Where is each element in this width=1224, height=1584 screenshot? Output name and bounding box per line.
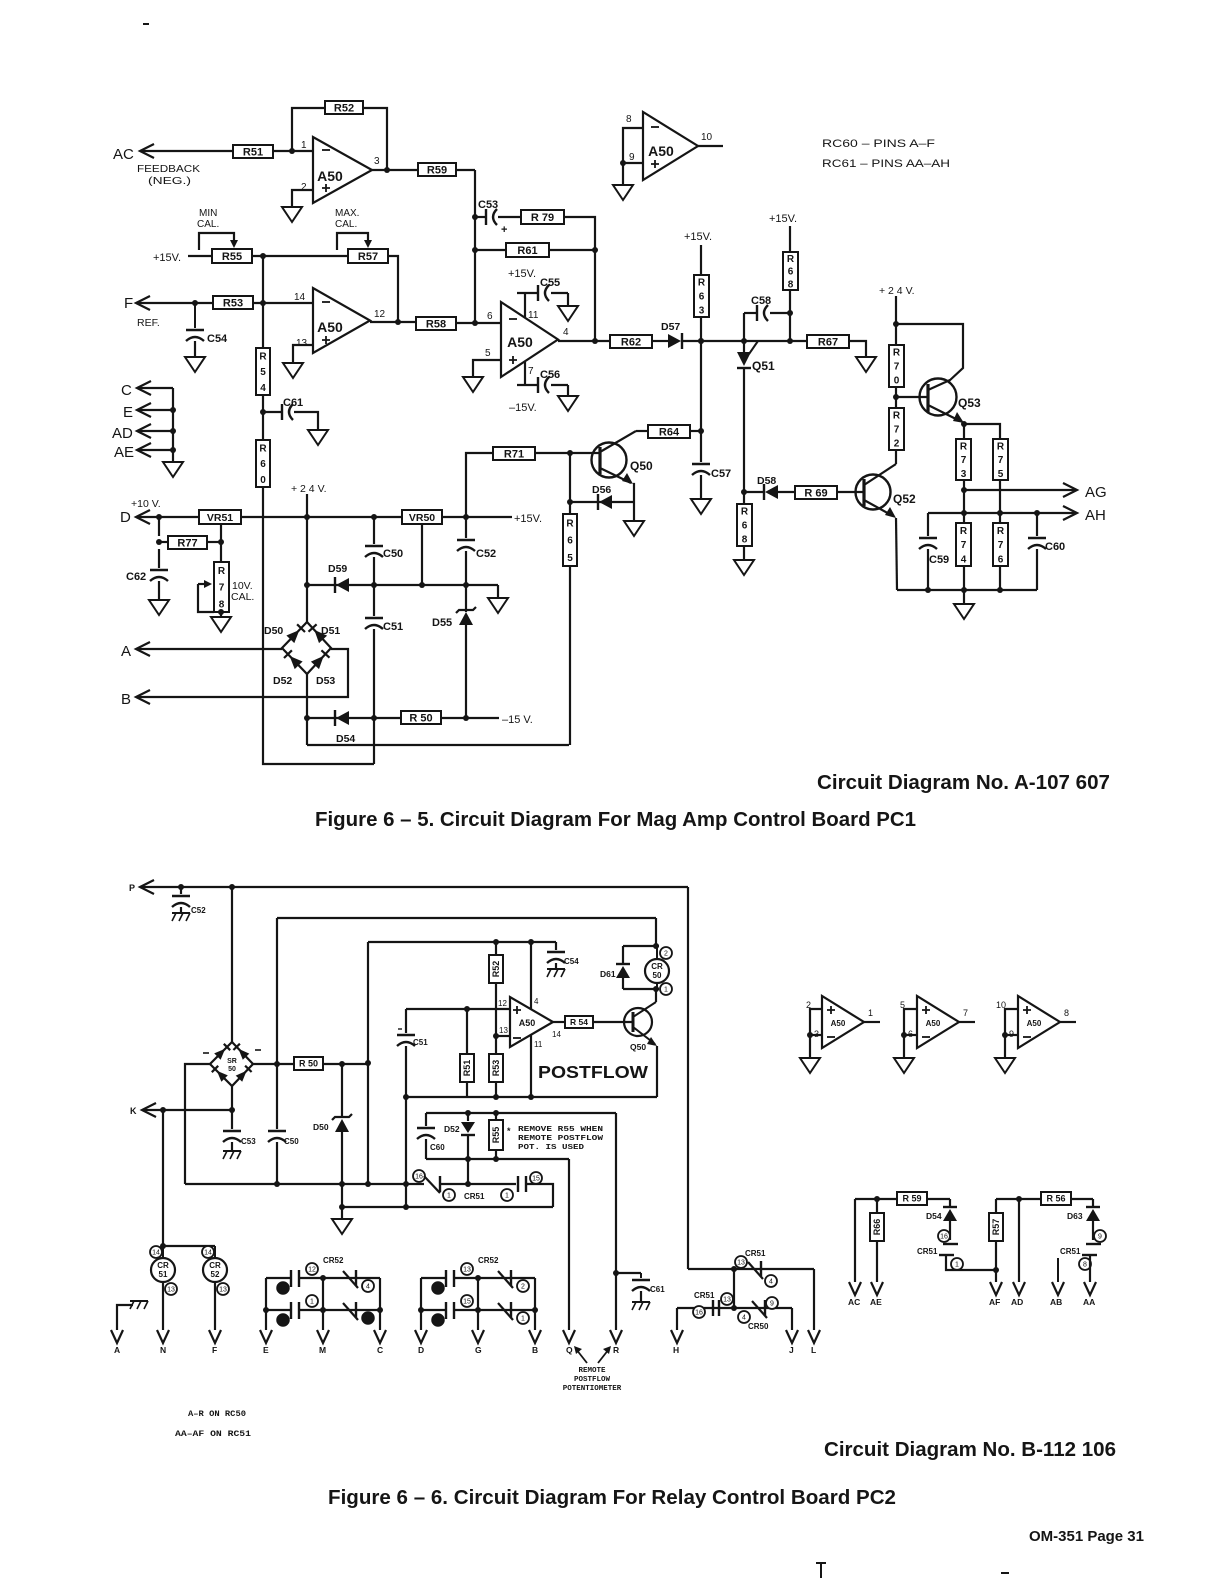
junction R61 left [472, 247, 478, 253]
wire CR50 top line [623, 945, 659, 947]
wire D54 segment [307, 717, 401, 719]
junction R64/R63 column [698, 428, 704, 434]
node G terminal arrow [472, 1330, 484, 1355]
diode D52 fig2 [444, 1113, 475, 1135]
svg-text:MAX.: MAX. [335, 208, 359, 219]
svg-text:13: 13 [167, 1287, 175, 1294]
resistor R53 fig2 [489, 1036, 503, 1082]
pin 9 label [1009, 1029, 1014, 1039]
svg-text:6: 6 [487, 311, 493, 322]
wire +15V to R68 [789, 226, 791, 252]
wire H drop [676, 1308, 678, 1330]
diode D63 [1067, 1207, 1100, 1221]
pin 7 label [528, 366, 534, 377]
node D terminal arrow fig2 [415, 1330, 427, 1355]
op-amp U3 A50 [643, 112, 698, 180]
wire R67 to ground [849, 341, 866, 357]
wire DGB row1 mid [454, 1277, 535, 1279]
svg-text:+15V.: +15V. [153, 252, 181, 264]
svg-text:+15V.: +15V. [514, 513, 542, 525]
terminal 13b HJL [721, 1293, 733, 1305]
wire C58 to R68 column [770, 312, 790, 314]
svg-text:C59: C59 [929, 554, 949, 566]
terminal 1 DGB [517, 1312, 529, 1324]
svg-text:3: 3 [374, 156, 380, 167]
svg-text:7: 7 [961, 455, 967, 466]
wire bus1 mid [440, 1183, 516, 1185]
svg-text:R 50: R 50 [409, 712, 432, 724]
junction R71/D56 riser [567, 450, 573, 456]
svg-text:D51: D51 [321, 625, 340, 637]
label Q50 [630, 459, 653, 473]
wire pin12 line [406, 1009, 510, 1033]
svg-text:7: 7 [281, 1318, 285, 1325]
wire D drop [418, 1278, 424, 1330]
svg-text:G: G [475, 1345, 482, 1355]
junction R63 column on rail [698, 338, 704, 344]
wire EMC row1 [266, 1277, 291, 1279]
junction Q51/D58/R68 [741, 489, 747, 495]
node AD terminal arrow fig2 [1011, 1282, 1025, 1307]
svg-text:B: B [121, 691, 131, 708]
wire base to Q53 [896, 396, 928, 398]
svg-text:C61: C61 [650, 1285, 665, 1294]
wire C50 to D59 rail [373, 557, 375, 585]
relay coil CR52 [203, 1246, 227, 1282]
wire pin4 [530, 942, 532, 1009]
svg-text:9: 9 [1098, 1234, 1102, 1241]
wire C51 to postflow bus [405, 1046, 407, 1097]
wire +15V to R63 [700, 245, 702, 275]
ground at output bus [954, 604, 974, 619]
wire P line [140, 886, 688, 888]
label MIN CAL. [197, 208, 219, 230]
svg-text:1: 1 [310, 1299, 314, 1306]
svg-text:R: R [787, 254, 795, 265]
wire C59 down [927, 549, 929, 590]
wire E drop [263, 1278, 269, 1330]
diode D58 [757, 475, 778, 500]
wire R55 to R57 [252, 255, 348, 257]
resistor R58 [416, 317, 456, 330]
svg-text:D50: D50 [264, 625, 283, 637]
label A-R ON RC50 [188, 1410, 246, 1419]
pot wiper bracket R55 [199, 233, 238, 250]
wire EMC row2 [266, 1309, 291, 1311]
stray mark [143, 23, 149, 25]
relay contact CR52 h NC [498, 1302, 513, 1320]
svg-text:D50: D50 [313, 1122, 329, 1132]
junction C51/D54 [371, 715, 377, 721]
relay contact CR51 acae [917, 1244, 958, 1256]
junction at R51 output [289, 148, 295, 154]
svg-text:R: R [613, 1345, 619, 1355]
wire B drop [534, 1310, 536, 1330]
svg-text:+15V.: +15V. [769, 213, 797, 225]
svg-text:POSTFLOW: POSTFLOW [538, 1062, 649, 1082]
svg-text:12: 12 [374, 309, 386, 320]
node M terminal arrow [317, 1330, 329, 1355]
svg-text:8: 8 [1083, 1262, 1087, 1269]
caption Circuit Diagram No. A-107 607 [817, 772, 1110, 794]
svg-text:D59: D59 [328, 563, 347, 575]
wire R54 to Q50 base [593, 1021, 633, 1023]
transistor Q52 [856, 464, 897, 518]
wire bracket pins 5/6 [901, 1009, 917, 1058]
wire R line [615, 1113, 617, 1330]
svg-text:AH: AH [1085, 507, 1106, 524]
svg-text:4: 4 [260, 383, 266, 394]
svg-text:D53: D53 [316, 675, 335, 687]
wire coil split to CR52 [163, 1245, 215, 1247]
svg-text:D58: D58 [757, 475, 776, 487]
svg-text:A50: A50 [507, 334, 533, 350]
terminal 4 [362, 1280, 374, 1292]
wire C drop [379, 1310, 381, 1330]
svg-text:R51: R51 [462, 1060, 472, 1077]
wire P corner down [687, 887, 689, 1269]
wire U2 pin13 to ground [293, 345, 313, 363]
resistor R63 [694, 275, 709, 317]
svg-text:C54: C54 [564, 957, 579, 966]
svg-text:1: 1 [664, 987, 668, 994]
wire Q50 emitter down [633, 484, 634, 502]
svg-text:CR51: CR51 [694, 1291, 715, 1300]
junction HJL row1 [731, 1266, 737, 1272]
wire contact to AA [1089, 1255, 1091, 1282]
junction R55 top fig2 [493, 1110, 499, 1116]
wire AFAD top [996, 1198, 1093, 1200]
svg-text:16: 16 [940, 1234, 948, 1241]
junction U3 pin9 [620, 160, 626, 166]
wire CR50 bottom line [623, 988, 659, 990]
bridge rectifier SR50 [203, 1042, 261, 1086]
wire R59 to feedback column [456, 169, 475, 171]
wire F to R53 [136, 302, 213, 304]
svg-text:D54: D54 [926, 1211, 942, 1221]
terminal 13 DGB [461, 1263, 473, 1275]
resistor R56 fig2 [1041, 1192, 1071, 1205]
capacitor C50 fig2 [268, 1064, 299, 1146]
node P terminal arrow [129, 880, 154, 894]
stray bottom marks [816, 1563, 1009, 1578]
wire R77 drop [158, 517, 160, 536]
wire VR50 to +15V [442, 516, 512, 518]
wire D59 rail [307, 584, 498, 586]
label D50 [264, 625, 283, 637]
wire note-loop left lower [425, 1139, 427, 1159]
svg-text:D: D [120, 509, 131, 526]
svg-text:–15V.: –15V. [509, 402, 537, 414]
svg-text:R58: R58 [426, 318, 446, 330]
svg-text:CR51: CR51 [917, 1247, 938, 1256]
svg-text:Q51: Q51 [752, 359, 775, 373]
terminal 15 DGB [461, 1295, 473, 1307]
label AA-AF ON RC51 [175, 1430, 251, 1439]
wire Q50 emitter to bus corner [656, 1046, 658, 1097]
transistor Q50 fig2 [624, 1002, 657, 1046]
svg-text:CAL.: CAL. [197, 219, 219, 230]
resistor R59 [418, 163, 456, 176]
terminal 9 AA [1094, 1230, 1106, 1242]
svg-text:13: 13 [463, 1267, 471, 1274]
wire R55 down [495, 1150, 497, 1159]
ground at U4 pin5 [463, 377, 483, 392]
label remove note [507, 1126, 604, 1152]
chassis ground at C61 fig2 [632, 1291, 650, 1310]
label CR52 contact block 1 [323, 1256, 344, 1265]
wire U3 pin9 [623, 162, 643, 164]
wire C51 column to bus1 [405, 1097, 407, 1184]
pin 9 label [629, 152, 635, 163]
svg-text:C62: C62 [126, 571, 146, 583]
node C terminal arrow fig2 [374, 1330, 386, 1355]
wire D58 to R69 [778, 491, 795, 493]
svg-text:7: 7 [528, 366, 534, 377]
zener D50 fig2 [313, 1064, 352, 1132]
svg-text:AB: AB [1050, 1297, 1062, 1307]
svg-text:AC: AC [848, 1297, 860, 1307]
junction pin4 tap [528, 939, 534, 945]
terminal 1 ACAE [951, 1258, 963, 1270]
junction +24V on VR51 rail [304, 514, 310, 520]
node AE terminal arrow [114, 443, 151, 461]
wire CR51 coil to N [162, 1282, 164, 1330]
svg-text:4: 4 [961, 554, 967, 565]
svg-text:CR: CR [651, 962, 663, 971]
svg-text:REMOVE R55 WHEN: REMOVE R55 WHEN [518, 1126, 603, 1134]
junction R55 bottom [493, 1156, 499, 1162]
label Q52 [893, 492, 916, 506]
ground at R67 [856, 357, 876, 372]
node Q terminal arrow [563, 1330, 575, 1355]
svg-text:R71: R71 [504, 448, 524, 460]
wire SR50 to R50 fig2 [253, 1063, 294, 1065]
wire VR51 bottom to node [220, 524, 222, 562]
pin 2 label [301, 182, 307, 193]
svg-text:50: 50 [228, 1066, 236, 1073]
svg-text:1: 1 [301, 140, 307, 151]
svg-text:2: 2 [894, 439, 900, 450]
svg-text:C51: C51 [413, 1038, 428, 1047]
svg-text:Q50: Q50 [630, 459, 653, 473]
terminal 13 of CR51 coil [165, 1283, 177, 1295]
svg-text:1: 1 [955, 1262, 959, 1269]
svg-text:F: F [124, 295, 133, 312]
label Q50 fig2 [630, 1042, 646, 1052]
resistor R54 [256, 348, 270, 395]
junction C51/postflow bus [403, 1094, 409, 1100]
wire J drop [791, 1308, 793, 1330]
wire +24V to Q53 collector [896, 324, 963, 381]
svg-text:R: R [698, 278, 706, 289]
junction EMC row2 mid [320, 1307, 326, 1313]
svg-text:R55: R55 [491, 1127, 501, 1144]
ground at C54 [185, 357, 205, 372]
svg-text:R 50: R 50 [299, 1059, 318, 1069]
svg-text:CR: CR [157, 1261, 169, 1270]
wire note-loop top [426, 1112, 616, 1114]
capacitor C61 [263, 397, 303, 420]
node AC terminal arrow [113, 144, 154, 163]
svg-text:R 56: R 56 [1046, 1194, 1065, 1204]
svg-text:Q: Q [566, 1345, 573, 1355]
resistor R54 fig2 [565, 1016, 593, 1028]
svg-text:CAL.: CAL. [231, 591, 254, 603]
resistor R62 [610, 335, 652, 348]
wire CR52 coil to F [214, 1282, 216, 1330]
svg-text:8: 8 [788, 279, 794, 290]
wire AE drop [876, 1241, 878, 1282]
resistor R57 (MAX CAL pot) [348, 249, 388, 263]
junction C61 tap [260, 409, 266, 415]
svg-text:4: 4 [563, 327, 569, 338]
pin 4 label fig2 [534, 997, 539, 1006]
wire D59 rail to ground [497, 585, 499, 598]
chassis ground at A [117, 1301, 148, 1330]
wire CR50 to Q50 collector [655, 989, 657, 1002]
chassis ground at C54 fig2 [547, 963, 565, 977]
svg-text:3: 3 [699, 306, 705, 317]
wire C52 to D59 rail [465, 551, 467, 585]
svg-text:R61: R61 [517, 245, 537, 257]
label REF. [137, 317, 160, 329]
junction AD top [1016, 1196, 1022, 1202]
wire R61 left [475, 249, 506, 251]
svg-text:D52: D52 [444, 1124, 460, 1134]
transistor Q50 [592, 431, 637, 484]
junctions on common [170, 407, 176, 453]
wire VR51 to VR50 rail [241, 516, 402, 518]
wire R57 to AF [995, 1241, 997, 1282]
svg-text:5: 5 [436, 1318, 440, 1325]
junction bridge/D54 [304, 715, 310, 721]
svg-text:7: 7 [998, 540, 1004, 551]
junction C58/R68 column [787, 338, 793, 344]
terminal 4 dark DGB [432, 1282, 444, 1294]
junction C51 on bus2 [403, 1204, 409, 1210]
capacitor C60 [1028, 513, 1065, 553]
wire EMC row2 mid [299, 1309, 380, 1311]
terminal 4 HJL [765, 1275, 777, 1287]
wire C55 to ground [551, 293, 568, 306]
svg-text:AA–AF ON RC51: AA–AF ON RC51 [175, 1430, 251, 1439]
svg-text:CR50: CR50 [748, 1322, 769, 1331]
node A terminal arrow [121, 642, 150, 660]
wire C54 to ground [194, 341, 196, 357]
wire outer loop left [276, 918, 278, 1064]
svg-text:R: R [893, 348, 901, 359]
svg-text:R53: R53 [491, 1060, 501, 1077]
diode D54 [335, 710, 355, 745]
wire to R67 [790, 340, 807, 342]
pot wiper R78 [198, 580, 214, 612]
svg-text:C51: C51 [383, 621, 403, 633]
svg-text:A50: A50 [1027, 1019, 1042, 1028]
svg-text:7: 7 [894, 362, 900, 373]
junction EMC row1 [320, 1275, 326, 1281]
node B terminal arrow [121, 690, 150, 708]
wire Q51 node to D58 [744, 491, 764, 493]
wire R77 to R78 node [207, 539, 224, 545]
ground at R78 [211, 617, 231, 632]
wire bridge bottom down [306, 674, 308, 745]
node E terminal arrow [123, 403, 151, 421]
wire R53 to bus [493, 1082, 499, 1100]
relay coil CR50 [645, 946, 669, 989]
svg-text:Q53: Q53 [958, 396, 981, 410]
junction R76 top [997, 510, 1003, 516]
terminal 1 of CR51 contact [443, 1189, 455, 1201]
wire D56 segment [570, 501, 634, 503]
ground at U2 pin13 [283, 363, 303, 378]
SCR Q51 [737, 341, 775, 373]
wire U4 output [558, 340, 610, 341]
junction EMC row2 right [377, 1307, 383, 1313]
capacitor C58 [744, 295, 771, 321]
pin 7 label [963, 1008, 968, 1018]
svg-text:52: 52 [211, 1270, 220, 1279]
svg-text:2: 2 [521, 1284, 525, 1291]
svg-text:R67: R67 [818, 336, 838, 348]
capacitor C57 [692, 464, 731, 480]
wire Q line [568, 1159, 570, 1330]
svg-text:C52: C52 [191, 906, 206, 915]
wire D to VR51 [136, 516, 199, 518]
wire C53 to R79 [498, 216, 521, 218]
junction D59/C50 [371, 582, 377, 588]
svg-text:K: K [130, 1106, 137, 1116]
wire D63 drop [1092, 1199, 1094, 1207]
svg-text:10: 10 [701, 132, 713, 143]
wire bus2 to ground [341, 1207, 343, 1219]
svg-text:*: * [507, 1126, 511, 1136]
svg-text:13: 13 [296, 338, 308, 349]
junction AF node [993, 1267, 999, 1273]
resistor R52 [325, 101, 363, 114]
ground at U3 [613, 185, 633, 200]
ground at D59 rail [488, 598, 508, 613]
svg-text:A: A [121, 643, 131, 660]
svg-text:CR51: CR51 [464, 1192, 485, 1201]
wire C62 to ground [158, 581, 160, 600]
junction D52 top [465, 1110, 471, 1116]
junction feedback on output [592, 338, 598, 344]
capacitor C61 fig2 [616, 1273, 665, 1294]
label CR51 contact block [745, 1249, 766, 1258]
resistor R50 fig2 [294, 1057, 323, 1070]
svg-text:REF.: REF. [137, 317, 160, 329]
junctions on ground bus [925, 587, 1003, 593]
resistor R75 [993, 439, 1008, 480]
svg-text:R51: R51 [243, 146, 263, 158]
svg-text:C58: C58 [751, 295, 771, 307]
resistor R77 [168, 536, 207, 549]
junction feedback/R58 [472, 320, 478, 326]
svg-text:16: 16 [695, 1310, 703, 1317]
svg-text:REMOTE: REMOTE [578, 1367, 606, 1375]
svg-text:7: 7 [961, 540, 967, 551]
wire R50 to -15V [441, 717, 499, 719]
caption Circuit Diagram No. B-112 106 [824, 1439, 1116, 1461]
svg-text:R53: R53 [223, 297, 243, 309]
label +15V. at R63 [684, 231, 712, 243]
wire U3 output [698, 145, 723, 147]
wire R53 to U2 pin 14 [253, 302, 313, 304]
svg-text:C50: C50 [284, 1137, 299, 1146]
svg-text:POSTFLOW: POSTFLOW [574, 1376, 611, 1384]
svg-text:C55: C55 [540, 277, 560, 289]
